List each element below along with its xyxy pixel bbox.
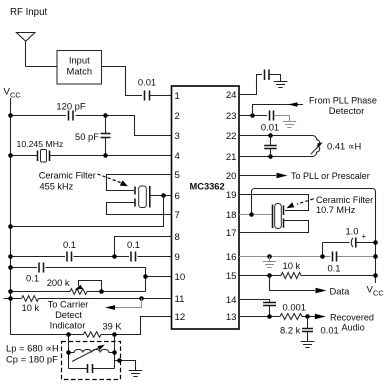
wire left end to R1 xyxy=(4,298,22,300)
capacitor Cp xyxy=(69,364,115,373)
svg-text:CC: CC xyxy=(373,288,384,297)
wire R5 to audio node xyxy=(302,316,312,318)
Ceramic Filter 455 kHz label xyxy=(39,171,96,192)
tank dashed box xyxy=(62,342,121,380)
svg-text:Ceramic Filter: Ceramic Filter xyxy=(39,171,96,181)
svg-text:39 K: 39 K xyxy=(103,321,123,331)
Data output arrow xyxy=(270,276,327,294)
wire pin 18 to FL2 xyxy=(239,214,272,216)
resistor R3 39 K xyxy=(83,321,122,337)
wire pin 14 to C10 xyxy=(239,300,270,303)
svg-text:2: 2 xyxy=(175,111,180,122)
capacitor 0.01 C1 xyxy=(138,77,156,101)
junction node pin 23 xyxy=(250,113,255,118)
wire pin 13 to R5 xyxy=(239,316,280,318)
wire pin 12 to 39K net xyxy=(101,317,172,335)
svg-text:9: 9 xyxy=(175,252,180,263)
svg-text:CC: CC xyxy=(10,90,21,99)
svg-text:8.2 k: 8.2 k xyxy=(280,325,301,336)
wire FL1 ground lug to pin 7 xyxy=(107,203,172,215)
svg-text:Recovered: Recovered xyxy=(330,313,374,323)
wire R4 to VCC rail xyxy=(301,275,376,277)
svg-text:1.0: 1.0 xyxy=(345,226,358,237)
junction node tank right top xyxy=(112,332,117,337)
junction node rail/pin16 wire xyxy=(373,254,378,259)
svg-text:22: 22 xyxy=(226,131,237,142)
wire pin 21 xyxy=(239,156,310,158)
junction node tank/ground stub xyxy=(117,358,122,363)
dashed leader arrow to FL2 xyxy=(287,199,314,208)
svg-text:16: 16 xyxy=(226,252,237,263)
Ceramic Filter 10.7 MHz label xyxy=(316,195,373,215)
svg-text:Indicator: Indicator xyxy=(50,320,86,330)
junction node tank left top xyxy=(66,332,71,337)
wire pin 16 net xyxy=(239,256,376,258)
svg-text:0.01: 0.01 xyxy=(138,77,156,88)
svg-text:MC3362: MC3362 xyxy=(190,182,225,192)
svg-text:13: 13 xyxy=(226,312,237,323)
VCC supply label left xyxy=(4,87,22,100)
junction node pin11 tap xyxy=(139,296,144,301)
svg-text:Data: Data xyxy=(330,285,351,296)
VCC feed wire right xyxy=(252,189,376,284)
capacitor 0.1 C9 xyxy=(327,252,340,274)
svg-text:0.01: 0.01 xyxy=(321,325,339,336)
op-amp IC U1 MC3362 xyxy=(172,86,240,329)
junction node rail/pin6 wire xyxy=(8,224,13,229)
junction node 120pF/50pF xyxy=(103,113,108,118)
svg-text:0.01: 0.01 xyxy=(261,122,279,133)
junction node pin 6 xyxy=(161,193,166,198)
wire pin 24 to C5 xyxy=(239,75,262,95)
svg-text:0.1: 0.1 xyxy=(327,263,340,274)
svg-text:3: 3 xyxy=(175,131,180,142)
wire tank right leg xyxy=(114,335,116,369)
junction node rail/pin15 wire xyxy=(373,273,378,278)
wire tank left leg xyxy=(68,335,70,369)
svg-text:50 pF: 50 pF xyxy=(75,131,99,142)
svg-text:Input: Input xyxy=(69,54,90,65)
ground audio cap xyxy=(301,342,315,348)
svg-text:5: 5 xyxy=(175,170,180,181)
svg-text:10 k: 10 k xyxy=(283,260,301,271)
resistor R4 10 k xyxy=(281,260,301,279)
svg-text:Lp = 680 ∝H: Lp = 680 ∝H xyxy=(6,343,59,354)
capacitor C5 bypass xyxy=(265,70,270,81)
wire FL1 output to pin 6 xyxy=(150,195,172,197)
From PLL Phase Detector label xyxy=(309,96,377,117)
junction node rail/pin9 wire xyxy=(8,254,13,259)
junction node Lp left xyxy=(66,350,71,355)
ground pin 16 xyxy=(269,257,271,262)
wire rail to C4 to pin10 riser xyxy=(11,268,146,292)
junction node audio out xyxy=(305,314,310,319)
svg-text:From PLL Phase: From PLL Phase xyxy=(309,96,377,106)
PLL input arrow xyxy=(253,102,304,115)
wire C6 to ground xyxy=(274,116,290,122)
capacitor 50 pF xyxy=(75,116,110,156)
svg-text:0.001: 0.001 xyxy=(283,302,306,313)
svg-text:To PLL or Prescaler: To PLL or Prescaler xyxy=(291,171,370,181)
svg-text:12: 12 xyxy=(175,312,186,323)
wire R1 to pin 11 xyxy=(39,298,172,300)
junction node pin8/pin9 xyxy=(112,254,117,259)
capacitor C8 1.0 electrolytic xyxy=(345,226,366,248)
svg-text:17: 17 xyxy=(226,228,237,239)
svg-text:+: + xyxy=(362,232,367,241)
ground tank xyxy=(129,371,143,377)
potentiometer R2 200 k xyxy=(47,277,146,294)
svg-text:14: 14 xyxy=(226,295,237,306)
svg-text:1: 1 xyxy=(175,91,180,102)
capacitor 0.1 C4 xyxy=(26,263,44,284)
Recovered Audio label xyxy=(330,313,374,333)
svg-text:24: 24 xyxy=(226,90,237,101)
junction node rail/pin11 wire xyxy=(8,296,13,301)
junction node pin 18 xyxy=(249,212,254,217)
wire antenna to Input Match xyxy=(26,66,58,68)
svg-text:15: 15 xyxy=(226,271,237,282)
wire C5 to ground xyxy=(269,75,281,82)
svg-text:23: 23 xyxy=(226,111,237,122)
svg-text:0.1: 0.1 xyxy=(63,239,76,250)
svg-text:Detector: Detector xyxy=(329,105,364,116)
capacitor 120 pF xyxy=(56,101,85,121)
pin 20 output arrow xyxy=(239,173,288,178)
svg-text:120 pF: 120 pF xyxy=(56,101,85,112)
junction node rail/120pF wire xyxy=(8,113,13,118)
wire C1 to pin 1 xyxy=(150,95,172,97)
wire pin 23 xyxy=(239,115,267,117)
svg-text:Cp = 180 pF: Cp = 180 pF xyxy=(6,354,58,365)
svg-text:455 kHz: 455 kHz xyxy=(40,181,74,191)
junction node pot wiper tie xyxy=(99,289,104,294)
wire pin 9 net xyxy=(11,256,172,258)
svg-text:Audio: Audio xyxy=(342,323,365,333)
svg-text:8: 8 xyxy=(175,232,180,243)
dashed leader arrow to FL1 xyxy=(98,174,128,186)
svg-text:10 k: 10 k xyxy=(22,302,40,313)
ceramic filter FL2 10.7 MHz xyxy=(273,204,284,229)
To Carrier Detect Indicator label xyxy=(48,300,89,331)
junction node pin16 ground xyxy=(267,254,272,259)
wire pin 19 to FL2 top lug xyxy=(239,195,309,211)
svg-text:0.41 ∝H: 0.41 ∝H xyxy=(327,141,361,152)
wire FL2 bottom lug to pin 17 xyxy=(239,221,309,233)
capacitor 0.1 C3 xyxy=(127,239,140,262)
VCC supply label right xyxy=(367,285,385,298)
wire 1.0 cap net xyxy=(323,243,376,257)
variable inductor Lp xyxy=(69,345,115,362)
capacitor 0.1 C2 xyxy=(63,239,76,262)
junction node Lp right xyxy=(112,350,117,355)
svg-text:10.245 MHz: 10.245 MHz xyxy=(17,139,64,149)
svg-text:7: 7 xyxy=(175,210,180,221)
Lp Cp values label xyxy=(6,343,59,365)
svg-text:Detect: Detect xyxy=(55,310,82,320)
wire rail to R2 pot xyxy=(11,291,71,293)
wire crystal to pin 4 xyxy=(50,155,172,157)
junction node pin22/C7 xyxy=(268,133,273,138)
svg-text:10.7 MHz: 10.7 MHz xyxy=(316,205,356,215)
capacitor C7 quad tank xyxy=(264,136,277,157)
ceramic filter FL1 455 kHz xyxy=(135,186,150,208)
resistor R1 10 k xyxy=(22,296,40,313)
capacitor C10 0.001 xyxy=(263,302,306,317)
svg-text:10: 10 xyxy=(175,272,186,283)
resistor R5 8.2 k xyxy=(280,314,302,336)
wire pin 8 down to pin 9 net xyxy=(115,237,172,257)
wire VCC rail to 120pF xyxy=(11,115,67,117)
wire 120pF net to pin 3 xyxy=(76,116,172,136)
wire pin 6 node to VCC rail xyxy=(11,196,164,227)
wire tank to ground xyxy=(115,361,136,371)
capacitor 0.01 C6 xyxy=(261,111,279,133)
wire pin 15 to R4 xyxy=(239,275,281,277)
carrier detect arrow xyxy=(105,299,142,310)
wire pin 5 to filter FL1 input xyxy=(107,175,172,191)
wire 39K to rail bend xyxy=(11,334,84,336)
wire rail to crystal Y1 xyxy=(11,155,38,157)
junction node pin15 tap xyxy=(267,273,272,278)
junction node rail/1.0 wire xyxy=(373,240,378,245)
junction node 50pF/pin4 wire xyxy=(103,153,108,158)
junction node rail/C4 wire xyxy=(8,265,13,270)
ground pin 23 cap xyxy=(283,122,297,128)
svg-text:To Carrier: To Carrier xyxy=(48,300,89,310)
junction node pin10/riser xyxy=(143,274,148,279)
svg-text:0.1: 0.1 xyxy=(26,273,39,284)
Recovered Audio arrow xyxy=(312,314,326,319)
svg-text:200 k: 200 k xyxy=(47,277,70,288)
input match block xyxy=(57,51,102,85)
svg-text:4: 4 xyxy=(175,151,181,162)
svg-text:21: 21 xyxy=(226,152,237,163)
crystal Y1 10.245 MHz xyxy=(17,139,64,162)
VCC rail wire left xyxy=(10,98,12,335)
svg-text:19: 19 xyxy=(226,190,237,201)
svg-text:18: 18 xyxy=(226,210,237,221)
svg-text:6: 6 xyxy=(175,191,180,202)
wire pin 22 xyxy=(239,135,310,137)
svg-text:Ceramic Filter: Ceramic Filter xyxy=(316,195,373,205)
capacitor C11 0.01 xyxy=(302,317,339,342)
junction node rail/crystal wire xyxy=(8,153,13,158)
svg-text:0.1: 0.1 xyxy=(127,239,140,250)
wire Input Match to C1 xyxy=(102,67,143,96)
antenna xyxy=(16,33,35,67)
svg-text:11: 11 xyxy=(175,294,185,305)
svg-text:RF Input: RF Input xyxy=(10,7,47,18)
junction node rail/pot wire xyxy=(8,289,13,294)
junction node pin16/1.0 riser xyxy=(320,254,325,259)
ground pin 24 xyxy=(274,82,288,88)
junction node pin13/C10 xyxy=(267,314,272,319)
svg-text:Match: Match xyxy=(67,66,93,77)
svg-text:20: 20 xyxy=(226,171,237,182)
wire pin 10 xyxy=(146,276,172,278)
variable coil L1 quad xyxy=(310,136,323,157)
junction node pin21/C7 xyxy=(268,154,273,159)
